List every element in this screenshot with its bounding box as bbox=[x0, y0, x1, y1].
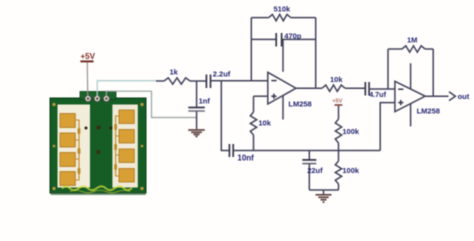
capacitor 1nf bbox=[188, 81, 210, 129]
svg-text:470p: 470p bbox=[284, 31, 302, 40]
svg-text:1k: 1k bbox=[170, 68, 179, 77]
feedback right riser wire bbox=[315, 18, 317, 89]
svg-text:510k: 510k bbox=[274, 5, 292, 14]
power pins bbox=[282, 39, 284, 71]
svg-text:10nf: 10nf bbox=[237, 154, 254, 163]
gold antenna patches right column bbox=[119, 110, 134, 182]
svg-text:100k: 100k bbox=[342, 166, 360, 175]
wire module pin 2 (signal) to resistor 1k bbox=[97, 81, 158, 96]
resistor 1M bbox=[388, 46, 433, 52]
svg-text:10k: 10k bbox=[258, 118, 271, 127]
svg-text:1M: 1M bbox=[407, 35, 417, 44]
capacitor 10nf bbox=[228, 144, 230, 157]
svg-text:22uf: 22uf bbox=[307, 166, 323, 175]
wire U1 + input bbox=[254, 95, 268, 97]
svg-text:out: out bbox=[458, 92, 470, 101]
svg-text:10k: 10k bbox=[330, 75, 343, 84]
feedback left riser wire bbox=[250, 18, 252, 81]
svg-text:2.2uf: 2.2uf bbox=[213, 70, 231, 79]
output wire and arrow bbox=[425, 92, 455, 101]
capacitor 22uf bbox=[302, 151, 323, 191]
center strip pads bbox=[97, 126, 101, 130]
svg-text:100k: 100k bbox=[342, 127, 360, 136]
watermark scribble on PCB bottom bbox=[62, 186, 132, 190]
wire U2 + input from bias line bbox=[380, 103, 395, 151]
svg-text:4.7uf: 4.7uf bbox=[369, 90, 386, 99]
resistor 510k bbox=[251, 14, 315, 20]
svg-text:LM258: LM258 bbox=[288, 100, 311, 109]
svg-text:1nf: 1nf bbox=[199, 97, 211, 106]
wire 2.2uf to op-amp U1 inverting input bbox=[211, 80, 268, 82]
wire U1 output bbox=[296, 87, 322, 89]
+5V supply (bias divider) bbox=[332, 99, 342, 105]
svg-text:+5V: +5V bbox=[332, 99, 342, 105]
power pins bbox=[410, 63, 412, 88]
capacitor 2.2uf bbox=[206, 70, 230, 88]
resistor 10k (U1 + input to bias line) bbox=[250, 96, 256, 150]
bias line wire bbox=[233, 150, 380, 152]
feed traces bbox=[75, 116, 119, 180]
ground (1nf) bbox=[188, 130, 205, 136]
wire module pin 3 to ground node bbox=[106, 91, 196, 117]
op-amp U2 LM258 bbox=[395, 63, 440, 126]
ground (bias divider) bbox=[309, 190, 338, 202]
resistor 1k bbox=[156, 78, 206, 84]
microwave sensor module PCB bbox=[50, 92, 146, 196]
wire 4.7uf to U2 inverting input bbox=[369, 88, 395, 90]
capacitor 470p bbox=[251, 38, 315, 40]
resistor 100k (lower) bbox=[335, 151, 341, 191]
capacitor 4.7uf bbox=[364, 82, 366, 96]
svg-text:LM258: LM258 bbox=[417, 107, 440, 116]
svg-text:+5V: +5V bbox=[81, 52, 96, 61]
resistor 100k (upper) bbox=[335, 106, 341, 151]
resistor 10k (interstage) bbox=[322, 85, 365, 91]
node wire down to 10nf bbox=[221, 81, 229, 151]
connector pins bbox=[85, 95, 110, 101]
+5V supply rail (left) bbox=[80, 52, 95, 62]
gold antenna patches left column bbox=[60, 114, 75, 186]
border pads bbox=[52, 103, 143, 190]
op-amp U1 LM258 bbox=[268, 39, 312, 119]
feedback risers U2 bbox=[387, 49, 389, 89]
wire +5V to module pin 1 bbox=[86, 62, 88, 96]
